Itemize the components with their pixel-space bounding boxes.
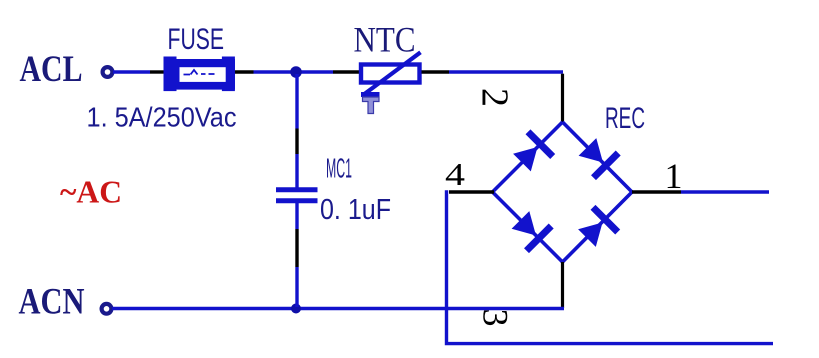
wire pin3 stub down (black) <box>561 262 564 308</box>
svg-text:1: 1 <box>665 156 683 196</box>
svg-text:3: 3 <box>476 309 516 327</box>
svg-text:ACN: ACN <box>19 282 85 323</box>
fuse inner dashed element <box>184 70 215 75</box>
wire NTC corner (blue) <box>449 70 563 73</box>
node B junction dot <box>291 304 301 314</box>
wire ACN run (blue) <box>112 307 564 310</box>
wire fuse to node A (black) <box>235 70 254 73</box>
diode D2 top-right <box>579 138 619 178</box>
wire pin1 stub (black) <box>632 190 681 193</box>
svg-text:~AC: ~AC <box>60 174 122 210</box>
wire node A to NTC (black) <box>333 70 359 73</box>
NTC diagonal stroke <box>364 52 421 94</box>
svg-text:REC: REC <box>605 102 645 135</box>
thermistor NTC body <box>361 52 421 113</box>
svg-text:1. 5A/250Vac: 1. 5A/250Vac <box>87 102 237 133</box>
svg-text:2: 2 <box>474 88 516 107</box>
wire ACL to fuse (black) <box>150 70 165 73</box>
svg-text:4: 4 <box>445 156 465 192</box>
bridge REC diamond edges <box>493 122 633 262</box>
wire corner down to bridge pin 2 (black) <box>561 74 564 123</box>
svg-text:ACL: ACL <box>20 49 83 90</box>
capacitor MC1 top lead lower (blue) <box>295 154 298 188</box>
capacitor MC1 bottom lead lower (blue) <box>295 267 298 307</box>
wire ACL to fuse (blue) <box>113 70 150 73</box>
diode D4 bottom-right <box>578 207 618 247</box>
terminal ACL <box>103 67 113 77</box>
svg-text:MC1: MC1 <box>326 153 352 184</box>
wire pin4 stub (black) <box>449 190 494 193</box>
capacitor MC1 bottom lead (blue) <box>295 203 298 229</box>
wire pin4 corner down and bottom run (blue) <box>447 190 774 343</box>
node A junction dot <box>290 66 302 78</box>
svg-text:FUSE: FUSE <box>168 23 225 56</box>
terminal ACN <box>102 304 112 314</box>
capacitor MC1 bottom lead (black) <box>295 229 298 267</box>
wire NTC to corner (black) <box>422 70 450 73</box>
NTC T mark <box>363 97 380 114</box>
wire fuse to node A (blue) <box>254 70 334 73</box>
svg-text:0. 1uF: 0. 1uF <box>320 194 391 226</box>
capacitor MC1 top lead (black) <box>295 129 298 155</box>
diode D3 bottom-left <box>512 211 552 251</box>
svg-text:NTC: NTC <box>354 20 416 60</box>
diode D1 top-left <box>513 132 553 172</box>
wire pin1 out (blue) <box>681 190 769 193</box>
NTC diagonal foot <box>361 92 380 97</box>
capacitor MC1 top lead (blue) <box>295 74 298 129</box>
capacitor MC1 plates <box>276 187 318 192</box>
fuse F1 body <box>164 57 236 92</box>
